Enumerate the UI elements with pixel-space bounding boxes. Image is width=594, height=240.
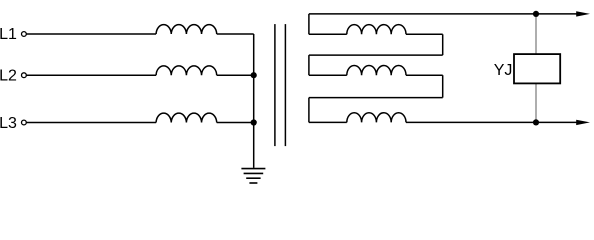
wire L3 terminal to winding [26, 122, 156, 124]
wire secondary right drop 1 [442, 34, 444, 55]
wire secondary winding a to right drop [406, 33, 443, 35]
wire relay branch [535, 14, 537, 123]
wire secondary left drop 3 [308, 98, 310, 123]
secondary winding c [347, 113, 406, 123]
svg-text:L3: L3 [0, 115, 17, 132]
svg-text:L1: L1 [0, 26, 17, 43]
neutral bus wire [253, 34, 255, 168]
ground [241, 169, 265, 183]
terminal L1 [22, 32, 27, 37]
junction L3-neutral [251, 119, 257, 125]
junction top output node [533, 11, 539, 17]
wire to secondary winding a [309, 33, 347, 35]
primary winding L2 [156, 66, 217, 75]
junction L2-neutral [251, 72, 257, 78]
wire secondary return row 1 [309, 54, 443, 56]
wire secondary bottom output row [406, 121, 578, 123]
wire to secondary winding c [309, 121, 347, 123]
primary winding L1 [156, 25, 217, 34]
wire secondary left drop 2 [308, 55, 310, 75]
transformer core [275, 24, 286, 146]
junction bottom output node [533, 119, 539, 125]
svg-text:YJ: YJ [494, 62, 513, 79]
relay YJ [514, 54, 560, 83]
secondary winding b [347, 65, 406, 75]
wire L2 winding to neutral bus [217, 74, 254, 76]
terminal L2 [22, 73, 27, 78]
wire L2 terminal to winding [26, 74, 156, 76]
wire secondary return row 2 [309, 97, 443, 99]
svg-text:L2: L2 [0, 67, 17, 84]
wire secondary top output row [309, 13, 578, 15]
arrow top output [576, 11, 590, 16]
wire secondary left drop 1 [308, 14, 310, 34]
wire L1 winding to neutral bus [217, 33, 254, 35]
wire secondary right drop 2 [442, 75, 444, 97]
wire secondary winding b to right drop [406, 74, 443, 76]
primary winding L3 [156, 113, 217, 122]
wire L3 winding to neutral bus [217, 122, 254, 124]
wire to secondary winding b [309, 74, 347, 76]
terminal L3 [22, 120, 27, 125]
secondary winding a [347, 25, 406, 35]
wire L1 terminal to winding [26, 33, 156, 35]
arrow bottom output [576, 120, 590, 125]
